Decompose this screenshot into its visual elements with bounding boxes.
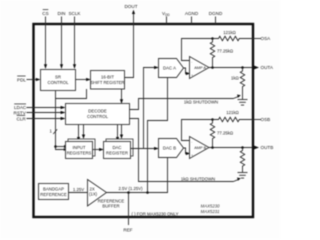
svg-text:PDL: PDL bbox=[17, 77, 26, 82]
svg-text:CONTROL: CONTROL bbox=[87, 114, 109, 119]
resistor 77.25k A vertical bbox=[210, 39, 214, 68]
svg-text:SR: SR bbox=[55, 74, 61, 79]
resistor 121k B horizontal bbox=[213, 117, 253, 121]
block DAC B pentagon bbox=[159, 139, 184, 158]
wire decode to DAC register arrow 1 bbox=[117, 125, 119, 138]
pin RSTV arrow into decode bbox=[61, 111, 66, 114]
block DAC REGISTER shadow box bbox=[106, 139, 133, 156]
svg-text:LDAC: LDAC bbox=[14, 105, 27, 110]
pin PDL wire bbox=[27, 79, 37, 81]
junction dot feedback B top bbox=[211, 118, 214, 121]
pin LDAC arrow into decode bbox=[61, 106, 66, 109]
svg-text:AMP B: AMP B bbox=[194, 145, 206, 150]
pin CS line bbox=[45, 17, 47, 65]
svg-text:77.25kΩ: 77.25kΩ bbox=[217, 48, 234, 53]
wire DAC B output to AMP B lower input bbox=[184, 148, 187, 154]
svg-text:REF: REF bbox=[123, 228, 132, 233]
pin CS arrow into SR control bbox=[44, 64, 47, 69]
arrow into shift register bbox=[86, 78, 91, 81]
svg-text:77.25kΩ: 77.25kΩ bbox=[217, 130, 234, 135]
svg-text:1.25V: 1.25V bbox=[73, 187, 84, 192]
junction dot REF drop bbox=[127, 191, 130, 194]
wire SR control bottom joining data bus bbox=[55, 91, 57, 99]
svg-text:+: + bbox=[191, 73, 193, 77]
svg-text:DOUT: DOUT bbox=[124, 4, 137, 9]
bus width marker 1 with slash bbox=[50, 129, 58, 135]
junction dot AMP B output bbox=[211, 146, 214, 149]
ground A bbox=[238, 100, 248, 106]
pin CLR arrow into decode bbox=[61, 117, 66, 120]
svg-text:2X: 2X bbox=[90, 186, 95, 191]
svg-text:REFERENCE: REFERENCE bbox=[40, 192, 67, 197]
svg-text:REGISTERS: REGISTERS bbox=[67, 150, 92, 155]
pin RSTV wire bbox=[27, 112, 62, 114]
svg-text:OUTB: OUTB bbox=[261, 145, 274, 150]
svg-text:16-BIT: 16-BIT bbox=[101, 74, 114, 79]
pin DIN arrow bbox=[60, 64, 63, 69]
svg-text:REGISTER: REGISTER bbox=[106, 150, 128, 155]
ground B bbox=[238, 173, 248, 179]
wire DAC A output to AMP A lower input bbox=[184, 68, 187, 74]
resistor 121k A horizontal bbox=[213, 36, 253, 40]
op-amp AMP B bbox=[190, 137, 210, 159]
svg-text:121kΩ: 121kΩ bbox=[223, 30, 236, 35]
block 16-BIT SHIFT REGISTER bbox=[91, 71, 125, 90]
junction dot feedback A top bbox=[211, 37, 214, 40]
pin DOUT wire from shift register up out of border bbox=[125, 14, 134, 78]
svg-text:SCLK: SCLK bbox=[68, 11, 81, 16]
resistor 1k A vertical bbox=[240, 68, 244, 100]
pin DOUT arrow up bbox=[132, 10, 135, 14]
wire ref branch up to DAC A bbox=[148, 78, 168, 193]
block BANDGAP REFERENCE bbox=[39, 184, 69, 200]
wire decode to input registers arrow 2 bbox=[83, 125, 85, 135]
shutdown A switch arrow bbox=[234, 96, 239, 98]
wire DAC register bus up to DAC A bbox=[144, 68, 155, 149]
wire bandgap to reference buffer bbox=[69, 192, 88, 194]
reference buffer triangle 2X bbox=[88, 180, 107, 207]
svg-text:OUTA: OUTA bbox=[261, 65, 274, 70]
junction dot 1k B top bbox=[241, 146, 244, 149]
svg-text:AMP A: AMP A bbox=[194, 65, 206, 70]
pin VDD tick bbox=[166, 17, 168, 25]
wire AMP B output to OUTB bbox=[209, 147, 252, 149]
pin REF wire down bbox=[128, 193, 130, 226]
branch arrow into shadow input register bbox=[56, 146, 65, 148]
svg-text:-: - bbox=[191, 140, 192, 144]
pin LDAC wire bbox=[27, 107, 62, 109]
junction dot 1k A top bbox=[241, 66, 244, 69]
svg-text:1kΩ SHUTDOWN: 1kΩ SHUTDOWN bbox=[181, 176, 215, 181]
svg-text:OSA: OSA bbox=[261, 36, 272, 41]
resistor 1k B vertical bbox=[240, 148, 244, 173]
wire decode to shutdown B bbox=[130, 119, 234, 182]
pin SCLK line bbox=[74, 17, 76, 65]
junction dot at input registers feed bbox=[54, 145, 57, 148]
wire AMP A feedback loop bbox=[182, 39, 213, 61]
pin DGND tick bbox=[215, 17, 217, 25]
svg-text:MAX5230: MAX5230 bbox=[201, 204, 220, 209]
svg-text:DAC B: DAC B bbox=[163, 146, 176, 151]
pin PDL arrow into SR control bbox=[36, 78, 41, 81]
pin AGND tick bbox=[191, 17, 193, 25]
arrow into DAC A bbox=[154, 66, 159, 69]
svg-text:-: - bbox=[191, 60, 192, 64]
svg-text:DAC A: DAC A bbox=[163, 66, 176, 71]
svg-text:DIN: DIN bbox=[58, 11, 66, 16]
svg-text:121kΩ: 121kΩ bbox=[226, 110, 239, 115]
op-amp AMP A bbox=[190, 57, 210, 79]
svg-text:OSB: OSB bbox=[261, 117, 271, 122]
svg-text:INPUT: INPUT bbox=[73, 145, 86, 150]
svg-text:1kΩ: 1kΩ bbox=[231, 76, 240, 81]
svg-text:+: + bbox=[191, 153, 193, 157]
junction dot AMP A output bbox=[211, 66, 214, 69]
junction dot DAC A ref branch bbox=[146, 191, 149, 194]
svg-text:DECODE: DECODE bbox=[88, 108, 107, 113]
wire AMP B feedback loop bbox=[182, 120, 213, 141]
wire decode to DAC register arrow 2 bbox=[121, 125, 123, 135]
pin OUTA arrow bbox=[254, 65, 260, 69]
wire input registers to DAC register bbox=[93, 149, 100, 151]
svg-text:2.5V (1.25V): 2.5V (1.25V) bbox=[118, 186, 143, 191]
svg-text:BANDGAP: BANDGAP bbox=[43, 186, 64, 191]
arrow into decode control top bbox=[120, 99, 123, 104]
svg-text:CS: CS bbox=[42, 11, 48, 16]
wire shift register down to decode control bbox=[121, 89, 123, 100]
block INPUT REGISTERS shadow box bbox=[68, 139, 95, 156]
svg-text:RSTV: RSTV bbox=[14, 111, 27, 116]
wire decode to input registers arrow 1 bbox=[78, 125, 80, 138]
pin OSB tick bbox=[252, 119, 261, 121]
svg-text:MAX5231: MAX5231 bbox=[201, 209, 220, 214]
arrow into front input register bbox=[64, 148, 66, 151]
pin DIN line bbox=[61, 17, 63, 65]
svg-text:1kΩ SHUTDOWN: 1kΩ SHUTDOWN bbox=[184, 99, 218, 104]
wire AMP A output to OUTA bbox=[209, 67, 252, 69]
svg-text:SHIFT REGISTER: SHIFT REGISTER bbox=[91, 80, 125, 85]
block DAC A pentagon bbox=[159, 59, 184, 78]
resistor 77.25k B vertical bbox=[210, 120, 214, 148]
pin CS label bbox=[42, 10, 48, 16]
svg-text:CLR: CLR bbox=[17, 117, 27, 122]
svg-text:REFERENCE: REFERENCE bbox=[98, 198, 125, 203]
svg-text:DGND: DGND bbox=[209, 11, 223, 16]
pin LDAC label with overbar bbox=[14, 104, 27, 110]
pin CLR label with overbar bbox=[17, 115, 27, 121]
svg-text:DAC: DAC bbox=[112, 145, 121, 150]
wire DAC register to DAC B bbox=[131, 148, 155, 150]
svg-text:BUFFER: BUFFER bbox=[102, 204, 119, 209]
wire decode to shutdown A bbox=[130, 99, 234, 110]
pin SCLK arrow bbox=[73, 64, 76, 69]
wire SR control to shift register bbox=[76, 79, 87, 81]
block DECODE CONTROL bbox=[66, 104, 130, 125]
pin OSA tick bbox=[252, 38, 261, 40]
border frame of IC bbox=[34, 24, 254, 217]
pin OUTB arrow bbox=[254, 145, 260, 149]
block SR CONTROL bbox=[41, 70, 76, 91]
block INPUT REGISTERS front box bbox=[66, 142, 93, 159]
pin CLR wire bbox=[27, 118, 62, 120]
wire reference line to DAC B bbox=[107, 158, 168, 193]
pin PDL label with overbar bbox=[17, 76, 26, 82]
shutdown B switch arrow bbox=[234, 179, 239, 181]
svg-text:( ) FOR MAX5230 ONLY: ( ) FOR MAX5230 ONLY bbox=[132, 212, 179, 217]
svg-text:AGND: AGND bbox=[185, 11, 199, 16]
svg-text:CONTROL: CONTROL bbox=[47, 80, 69, 85]
block DAC REGISTER front box bbox=[104, 142, 131, 159]
svg-text:(1X): (1X) bbox=[89, 192, 98, 197]
wire shift register bottom to input registers (data bus) bbox=[56, 89, 87, 150]
